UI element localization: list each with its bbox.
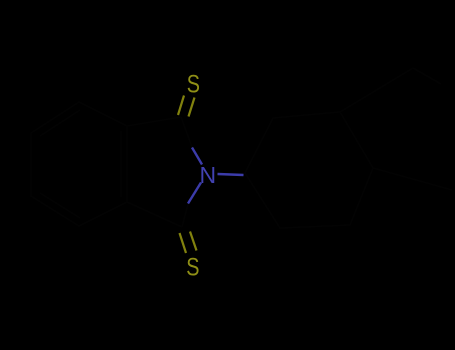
benzo ring (left hexagon) (31, 102, 127, 226)
svg-text:S: S (187, 71, 200, 99)
bond C1-N dark half (181, 117, 192, 147)
C3=S double bond (olive) (180, 232, 197, 254)
bond C3-N dark half (182, 204, 188, 227)
tail methyl bond (413, 68, 441, 84)
benzo double bond C6=C7 inner line (40, 110, 80, 136)
bond C7a-C1 (127, 117, 181, 126)
C1=S double bond (olive) (178, 96, 195, 117)
bond N-C(aryl) horizontal (218, 174, 244, 175)
bond toward right edge (373, 168, 452, 190)
right hexagon (aryl ring) (245, 112, 373, 228)
bond C3-N blue half (188, 183, 201, 204)
svg-text:S: S (186, 254, 199, 282)
fusion double bond inner line (120, 131, 122, 197)
tail bond from ring (340, 68, 413, 112)
benzo double bond C4=C5 inner line (40, 193, 80, 218)
svg-text:N: N (200, 162, 217, 188)
bond C3a-C3 (127, 202, 182, 227)
fusion bond C3a-C7a (126, 126, 128, 202)
bond C1-N blue half (192, 148, 202, 165)
